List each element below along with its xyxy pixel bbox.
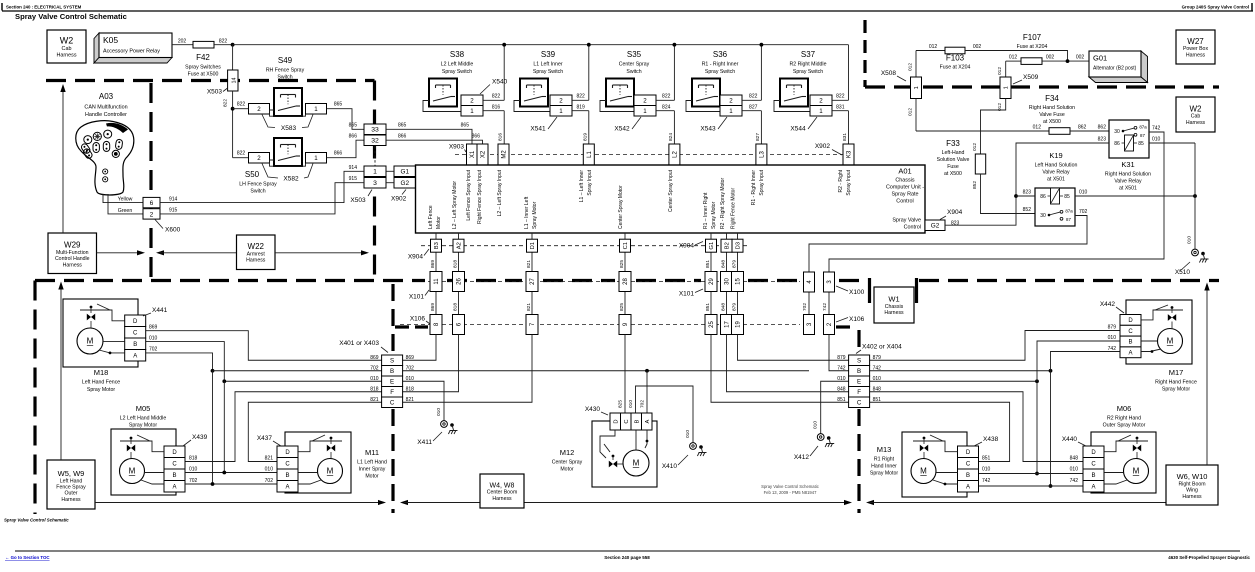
wire 848 X106-17 to X402-F	[727, 335, 849, 392]
svg-text:2: 2	[729, 97, 733, 104]
node: 002 junction to G01	[1066, 59, 1070, 63]
svg-text:W22: W22	[248, 242, 265, 251]
connector X503 pin 32	[364, 135, 386, 146]
svg-text:Spray Input: Spray Input	[587, 169, 593, 195]
svg-text:F: F	[390, 389, 394, 396]
svg-text:Spray Valve Control Schematic: Spray Valve Control Schematic	[761, 484, 819, 489]
wire 914 from pin 6	[160, 171, 364, 202]
svg-text:L1 Left Hand: L1 Left Hand	[357, 460, 387, 466]
svg-text:742: 742	[1070, 478, 1079, 484]
connector X106 pin 6	[453, 315, 465, 335]
svg-text:Left Hand Solution: Left Hand Solution	[1035, 163, 1078, 169]
svg-text:L1: L1	[587, 151, 593, 158]
connector X540 pin 1	[461, 106, 483, 117]
wire 821 X401-C to M11	[248, 402, 381, 461]
svg-text:M: M	[633, 459, 640, 468]
svg-text:X508: X508	[881, 70, 897, 77]
svg-text:Center Spray: Center Spray	[552, 460, 583, 466]
wire yellow from A03	[103, 194, 143, 203]
connector X106 pin 8	[430, 315, 442, 335]
svg-text:X582: X582	[283, 176, 299, 183]
svg-text:B: B	[857, 368, 861, 375]
svg-text:E: E	[857, 378, 861, 385]
svg-text:D: D	[285, 450, 290, 456]
svg-text:869: 869	[430, 303, 436, 311]
connector X430 pins D C B A	[610, 413, 621, 430]
connector X904 pin G1	[706, 239, 717, 252]
motor M05 L2 left hand middle spray motor box	[111, 429, 176, 495]
svg-text:852: 852	[1023, 207, 1032, 213]
M06 motor	[1124, 459, 1149, 484]
svg-text:X412: X412	[794, 454, 810, 461]
M12 motor internals	[600, 430, 615, 458]
wire 823 G2 to relay coils	[945, 143, 1109, 225]
svg-text:B: B	[634, 419, 640, 423]
A03 top black wedge	[106, 123, 128, 133]
M18 internals	[80, 310, 125, 321]
connector X106 pin 9	[619, 315, 631, 335]
svg-text:818: 818	[452, 303, 458, 311]
svg-text:Spray Rate: Spray Rate	[892, 192, 919, 198]
harness box W29 multi-function control handle harness	[48, 233, 97, 274]
svg-text:865: 865	[349, 123, 358, 129]
M05 motor	[120, 459, 145, 484]
wire 851 X402-C to M13-C	[870, 402, 1010, 461]
wire 742 X402-B bus right	[870, 370, 1051, 372]
connector X440 pins D C B A	[1083, 446, 1104, 458]
connector pin X1	[467, 144, 478, 165]
M11 internals	[298, 441, 342, 452]
wire 816 from S38 pin 1	[483, 110, 504, 112]
svg-text:87: 87	[1140, 133, 1145, 138]
relay K31 right hand solution valve relay	[1109, 120, 1149, 158]
svg-text:M: M	[129, 467, 136, 476]
svg-text:702: 702	[406, 366, 415, 372]
arrow W5W9 to boundary	[60, 285, 62, 460]
svg-text:C: C	[172, 461, 177, 467]
cab/armrest harness boundary (dashed)	[46, 79, 375, 82]
wire 818 X401-F to M05	[185, 392, 382, 462]
connector X503 pin 33	[364, 124, 386, 135]
svg-text:824: 824	[662, 104, 671, 110]
svg-text:X510: X510	[1175, 269, 1191, 276]
svg-text:R2 Right Middle: R2 Right Middle	[790, 62, 827, 68]
svg-text:Section 240 page 558: Section 240 page 558	[604, 555, 650, 560]
svg-text:Solution Valve: Solution Valve	[937, 157, 970, 163]
svg-text:914: 914	[349, 165, 358, 171]
dashed connector row X904	[421, 245, 750, 247]
svg-text:1: 1	[373, 169, 377, 176]
svg-text:010: 010	[685, 430, 691, 438]
svg-text:B: B	[390, 368, 394, 375]
svg-text:2: 2	[819, 97, 823, 104]
svg-text:87: 87	[1066, 217, 1071, 222]
node: 742 junction right	[1049, 369, 1053, 373]
svg-text:S37: S37	[801, 50, 816, 59]
svg-text:819: 819	[582, 133, 588, 141]
S49 switch common wire wrap	[270, 110, 306, 116]
svg-text:851: 851	[873, 397, 882, 403]
svg-text:M17: M17	[1169, 368, 1184, 377]
wire 819 from S39 pin 1	[572, 110, 589, 112]
S38 common wire wrap	[423, 101, 461, 112]
wire 866 from S50 pin 1	[327, 140, 365, 158]
svg-text:LH Fence Spray: LH Fence Spray	[239, 182, 277, 188]
wire 869 column at B3	[435, 233, 437, 239]
connector X441 pins D C B A	[125, 315, 146, 327]
svg-text:W29: W29	[64, 240, 81, 249]
svg-text:X503: X503	[350, 197, 366, 204]
M17 internals	[1141, 310, 1183, 320]
wire 865 from S49 pin 1	[327, 109, 365, 130]
wire 010 X402-E to ground X412	[821, 381, 849, 433]
svg-text:2: 2	[559, 97, 563, 104]
svg-text:F103: F103	[946, 54, 965, 63]
svg-text:866: 866	[349, 134, 358, 140]
svg-text:010: 010	[628, 400, 634, 408]
M18 motor	[77, 328, 103, 354]
svg-text:821: 821	[265, 456, 274, 462]
svg-text:A03: A03	[99, 92, 114, 101]
svg-text:X1: X1	[470, 150, 476, 158]
S39 common wire wrap	[514, 101, 550, 112]
svg-text:010: 010	[1079, 190, 1088, 196]
svg-text:742: 742	[1152, 125, 1161, 131]
node: 010 junction left	[222, 379, 226, 383]
connector X101 pin 15	[732, 272, 744, 292]
svg-text:S39: S39	[541, 50, 556, 59]
svg-text:Fuse at X204: Fuse at X204	[1017, 44, 1048, 50]
svg-text:Cab: Cab	[1191, 114, 1201, 120]
svg-text:002: 002	[973, 44, 982, 50]
svg-text:Right Hand Solution: Right Hand Solution	[1029, 105, 1075, 111]
svg-text:822: 822	[237, 102, 246, 108]
svg-text:Cab: Cab	[62, 46, 72, 52]
motor M11 L1 left hand inner spray motor box	[285, 432, 351, 493]
svg-text:F34: F34	[1045, 94, 1059, 103]
svg-text:012: 012	[997, 103, 1003, 111]
svg-text:851: 851	[982, 456, 991, 462]
svg-text:30: 30	[1040, 213, 1046, 219]
M05 internals	[120, 441, 164, 452]
svg-text:L2 Left Middle: L2 Left Middle	[441, 62, 474, 68]
svg-text:Spray Switch: Spray Switch	[442, 69, 472, 75]
svg-text:D: D	[1091, 450, 1096, 456]
connector X101 pin 28	[619, 272, 631, 292]
svg-text:M2: M2	[502, 150, 508, 159]
svg-text:X106: X106	[849, 316, 865, 323]
svg-text:W27: W27	[1187, 37, 1204, 46]
svg-text:010: 010	[370, 376, 379, 382]
svg-text:D: D	[172, 450, 177, 456]
svg-text:85: 85	[1064, 194, 1070, 200]
arrow W22 to boundary	[275, 252, 364, 254]
node: 822 bus junction at F42	[231, 43, 235, 47]
svg-text:Motor: Motor	[560, 467, 574, 473]
svg-text:M11: M11	[365, 448, 379, 457]
harness box W1 chassis harness	[874, 287, 914, 323]
boom harness boundary right vertical (dashed)	[857, 330, 860, 352]
svg-text:X438: X438	[983, 436, 999, 443]
svg-text:865: 865	[461, 122, 470, 128]
svg-text:Chassis: Chassis	[885, 304, 904, 310]
svg-text:A: A	[1091, 484, 1095, 490]
svg-text:Spray Motor: Spray Motor	[870, 471, 899, 477]
svg-text:866: 866	[334, 151, 343, 157]
svg-text:Center Spray: Center Spray	[619, 62, 650, 68]
svg-text:742: 742	[1108, 346, 1117, 352]
svg-text:869: 869	[406, 355, 415, 361]
svg-text:Motor: Motor	[365, 474, 379, 480]
svg-text:X904: X904	[679, 243, 695, 250]
connector pin L1	[583, 144, 594, 165]
connector pin 1 of X583	[306, 104, 327, 115]
switch S50 LH fence spray switch	[274, 138, 302, 166]
svg-text:Spray Switches: Spray Switches	[185, 65, 221, 71]
svg-text:012: 012	[972, 143, 978, 151]
wire 702 M12 tap	[646, 371, 648, 413]
svg-text:D1: D1	[530, 242, 536, 249]
svg-text:1: 1	[819, 108, 823, 115]
connector pin E	[382, 376, 403, 387]
svg-text:879: 879	[731, 260, 737, 268]
wire 851 X106-25 to X402-C	[711, 335, 849, 403]
svg-text:822: 822	[662, 94, 671, 100]
wire 012 X509 down to F33	[981, 99, 1006, 155]
connector X543 pin 2	[720, 95, 742, 106]
svg-text:Green: Green	[118, 208, 133, 214]
svg-text:852: 852	[972, 181, 978, 189]
svg-text:Accessory Power Relay: Accessory Power Relay	[103, 49, 160, 55]
connector X541 pin 1	[550, 106, 572, 117]
svg-text:L2 Left Hand Middle: L2 Left Hand Middle	[120, 416, 167, 422]
svg-text:742: 742	[873, 366, 882, 372]
svg-text:17: 17	[725, 321, 731, 328]
connector X904 pin D3	[732, 239, 743, 252]
svg-text:1: 1	[729, 108, 733, 115]
svg-text:Right Hand Solution: Right Hand Solution	[1105, 172, 1151, 178]
M11 motor	[318, 459, 343, 484]
svg-text:85: 85	[1138, 141, 1144, 147]
page footer	[15, 550, 1240, 552]
svg-text:822: 822	[223, 99, 229, 107]
svg-text:822: 822	[219, 38, 228, 44]
svg-text:D: D	[1128, 318, 1133, 324]
harness box W27 power box harness	[1176, 30, 1215, 64]
svg-text:B: B	[285, 473, 289, 479]
connector X902 pin G2	[394, 178, 416, 189]
svg-text:915: 915	[349, 176, 358, 182]
svg-text:010: 010	[837, 376, 846, 382]
svg-text:A: A	[133, 353, 137, 359]
svg-text:818: 818	[189, 456, 198, 462]
svg-text:X401 or X403: X401 or X403	[339, 340, 379, 347]
node: 010 junction right	[1035, 379, 1039, 383]
harness box W2 cab harness	[47, 30, 86, 63]
svg-text:M12: M12	[560, 448, 575, 457]
S50 switch common wire wrap	[270, 160, 306, 166]
dashed connector row X903/X902	[455, 154, 843, 156]
svg-text:6: 6	[150, 200, 154, 207]
svg-text:D: D	[613, 419, 619, 423]
wire 822 into S50 pin 2	[233, 157, 249, 159]
svg-text:Center Boom: Center Boom	[487, 490, 518, 496]
svg-text:Spray Input: Spray Input	[846, 169, 852, 195]
svg-text:Spray Motor: Spray Motor	[532, 201, 538, 229]
svg-text:30: 30	[1114, 129, 1120, 135]
connector pin K3	[843, 144, 854, 165]
svg-text:X503: X503	[207, 89, 223, 96]
wire 012 F103	[916, 50, 945, 52]
svg-text:Alternator (B2 post): Alternator (B2 post)	[1093, 66, 1137, 72]
connector X439 pins D C B A	[164, 446, 185, 458]
svg-text:L1 – Inner Left: L1 – Inner Left	[524, 196, 530, 229]
svg-text:M: M	[1167, 337, 1174, 346]
svg-text:Inner Spray: Inner Spray	[359, 467, 386, 473]
svg-text:C: C	[133, 330, 138, 336]
svg-text:Multi-Function: Multi-Function	[56, 250, 89, 256]
svg-text:Right Fence Spray Input: Right Fence Spray Input	[477, 169, 483, 224]
connector X503 pin 3	[364, 178, 386, 189]
svg-text:851: 851	[837, 397, 846, 403]
svg-text:Harness: Harness	[492, 496, 512, 502]
svg-text:S: S	[390, 357, 394, 364]
connector X904 pin B3	[431, 239, 442, 252]
svg-text:X904: X904	[408, 254, 424, 261]
svg-text:C: C	[1128, 329, 1133, 335]
svg-text:Harness: Harness	[1186, 120, 1206, 126]
svg-text:818: 818	[370, 387, 379, 393]
wire 822 vertical to F42 fuse	[232, 45, 234, 70]
svg-text:010: 010	[1108, 335, 1117, 341]
svg-text:742: 742	[822, 303, 828, 311]
svg-text:Outer Spray Motor: Outer Spray Motor	[1103, 423, 1146, 429]
dashed connector row X106	[400, 324, 800, 326]
wire 702 M05-M11	[185, 483, 277, 485]
svg-text:B: B	[1091, 473, 1095, 479]
motor M18 left hand fence spray motor box	[63, 299, 138, 367]
svg-text:X439: X439	[192, 434, 208, 441]
connector X540 pin 2	[461, 95, 483, 106]
harness box W5 W9 left hand fence spray outer harness	[47, 460, 95, 509]
wire 822 feed S38	[483, 99, 504, 101]
svg-text:F: F	[857, 389, 861, 396]
svg-text:012: 012	[908, 63, 914, 71]
connector pin 1 of X582	[306, 153, 327, 164]
svg-text:1: 1	[314, 155, 318, 162]
svg-text:Right Boom: Right Boom	[1178, 481, 1205, 487]
connector X100 pin 4	[804, 272, 815, 292]
svg-text:862: 862	[1078, 124, 1087, 130]
svg-text:K31: K31	[1121, 160, 1134, 169]
wire 818 column at A2	[458, 233, 460, 239]
connector X904 pin A2	[453, 239, 464, 252]
arrow W29 to boundary	[62, 88, 64, 233]
svg-text:at X501: at X501	[1119, 186, 1137, 192]
svg-text:X430: X430	[585, 406, 601, 413]
svg-text:822: 822	[237, 151, 246, 157]
svg-text:X402 or X404: X402 or X404	[862, 344, 902, 351]
svg-text:A01: A01	[898, 167, 911, 176]
svg-text:M13: M13	[877, 445, 892, 454]
left chassis boundary vertical (dashed)	[33, 281, 36, 515]
svg-text:D3: D3	[736, 242, 742, 249]
wire 869 M18 to X401-S	[146, 331, 382, 361]
harness box W2 cab harness right	[1176, 97, 1215, 132]
wire 702 M18 to X401-B and long 702 line	[146, 353, 213, 371]
svg-text:S35: S35	[627, 50, 642, 59]
svg-text:702: 702	[1079, 209, 1088, 215]
svg-text:1: 1	[559, 108, 563, 115]
svg-text:G2: G2	[400, 180, 409, 187]
wire 822 into S49 pin 2	[231, 107, 235, 111]
svg-text:L1 Left Inner: L1 Left Inner	[533, 62, 562, 68]
connector X543 pin 1	[720, 106, 742, 117]
svg-text:869: 869	[370, 355, 379, 361]
svg-text:87a: 87a	[1065, 208, 1073, 213]
svg-text:Left Fence: Left Fence	[428, 205, 434, 229]
svg-text:Spray Switch: Spray Switch	[793, 69, 823, 75]
svg-text:32: 32	[371, 138, 379, 145]
svg-text:A: A	[1128, 350, 1132, 356]
svg-text:Spray Valve Control Schematic: Spray Valve Control Schematic	[4, 518, 69, 523]
svg-text:E: E	[390, 378, 394, 385]
svg-text:Right Fence Motor: Right Fence Motor	[731, 188, 737, 229]
connector pin S	[382, 355, 403, 366]
svg-text:702: 702	[149, 347, 158, 353]
svg-text:G1: G1	[709, 242, 715, 250]
svg-text:Harness: Harness	[246, 258, 266, 264]
svg-text:B: B	[1128, 340, 1132, 346]
M13 motor	[911, 459, 936, 484]
svg-text:866: 866	[398, 134, 407, 140]
connector X503 pin 1	[364, 166, 386, 177]
svg-text:1: 1	[470, 108, 474, 115]
svg-text:M: M	[87, 337, 94, 346]
wire 742 X106-2 to X402-B	[829, 335, 849, 371]
svg-text:2: 2	[470, 97, 474, 104]
svg-text:X440: X440	[1062, 436, 1078, 443]
svg-text:W2: W2	[1190, 104, 1203, 113]
svg-text:M05: M05	[136, 404, 151, 413]
fuse symbol on wire 202/822	[193, 41, 214, 48]
wire 822 feed S37	[832, 99, 849, 101]
wire 824 from S35 pin 1	[656, 110, 674, 112]
svg-text:915: 915	[169, 208, 178, 214]
svg-text:B: B	[133, 342, 137, 348]
wire 702 chassis column	[808, 285, 810, 292]
svg-text:X540: X540	[492, 79, 508, 86]
connector X600 pin 6	[143, 197, 160, 207]
bottom arrow line left	[95, 502, 381, 504]
wire 831 from S37 pin 1	[832, 110, 849, 112]
svg-text:30: 30	[725, 278, 731, 285]
svg-text:Left-Hand: Left-Hand	[942, 150, 965, 156]
svg-text:M: M	[920, 467, 927, 476]
boom harness boundary left vertical (dashed)	[391, 284, 394, 352]
svg-text:827: 827	[749, 104, 758, 110]
chassis harness boundary X101 row (dashed)	[35, 279, 425, 282]
svg-text:27: 27	[530, 278, 536, 285]
svg-text:2: 2	[150, 211, 154, 218]
wire green from A03	[108, 194, 143, 214]
svg-text:K05: K05	[103, 35, 118, 45]
wire 818 X401-F to X106-6	[403, 335, 459, 392]
alternator G01 (3D box)	[1141, 51, 1148, 83]
svg-text:Left Fence Spray Input: Left Fence Spray Input	[466, 169, 472, 220]
svg-text:33: 33	[371, 127, 379, 134]
connector X106 pin 2 right	[824, 315, 835, 335]
